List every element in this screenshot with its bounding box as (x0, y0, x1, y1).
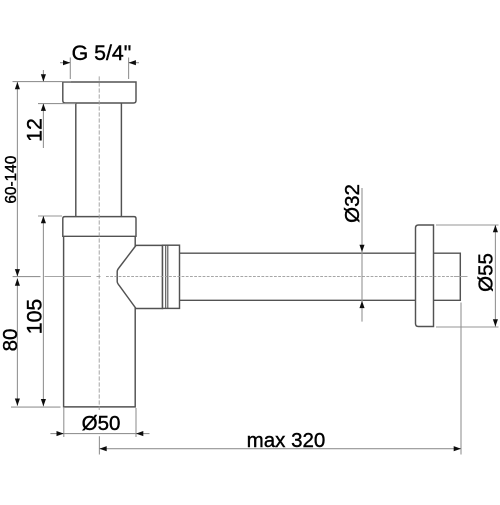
top flange (inlet nut) (63, 82, 136, 103)
extension line body bottom (11, 406, 61, 408)
svg-text:G 5/4": G 5/4" (72, 41, 132, 65)
arrow 80 top (15, 278, 20, 285)
dim 80 line (16, 278, 18, 405)
arrow 12 top (41, 74, 46, 81)
arrow max320 left (99, 446, 106, 451)
vertical centerline (98, 76, 100, 410)
arrow G5/4 left (63, 60, 70, 65)
arrow 60-140 top (15, 82, 20, 89)
dim diam32 line (361, 188, 363, 322)
horizontal centerline (106, 276, 454, 278)
dim diam50 extension lines (64, 408, 136, 437)
extension line flange bottom (38, 103, 76, 105)
dim diam55 line (494, 225, 496, 327)
trap body cup (64, 236, 136, 407)
dim max320 line (99, 448, 461, 450)
svg-text:105: 105 (23, 299, 47, 335)
svg-text:Ø55: Ø55 (475, 253, 498, 292)
dim G5/4 line (60, 62, 139, 64)
arrow diam55 top (493, 225, 498, 232)
dim max320 extension lines (99, 303, 461, 455)
outlet nut inner lines (166, 245, 168, 308)
arrow 105 top (41, 216, 46, 223)
svg-text:Ø50: Ø50 (82, 412, 121, 435)
dim 12 line (42, 70, 44, 148)
svg-text:80: 80 (0, 329, 22, 352)
arrow diam50 right (136, 431, 143, 436)
dim diam55 extension lines (436, 225, 499, 327)
dim diam50 line (50, 433, 149, 435)
extension line nut top (38, 215, 62, 217)
svg-text:60-140: 60-140 (3, 156, 20, 204)
arrow diam55 bottom (493, 319, 498, 326)
arrow diam32 top (359, 245, 364, 252)
horizontal outlet pipe (180, 253, 461, 300)
arrow diam50 left (57, 431, 64, 436)
arrow 105 bottom (41, 399, 46, 406)
wall flange (416, 225, 434, 327)
arrow G5/4 right (129, 60, 136, 65)
horizontal centerline solid lead (45, 276, 468, 278)
arrow 60-140 bottom (15, 269, 20, 276)
arrow diam32 bottom (359, 301, 364, 308)
svg-text:12: 12 (23, 118, 47, 142)
dim 105 line (42, 216, 44, 406)
svg-text:Ø32: Ø32 (341, 184, 364, 223)
extension line flange top (13, 81, 72, 83)
elbow bell cover (117, 245, 162, 308)
extension line pipe axis left (13, 276, 41, 278)
dim G5/4 extension lines (70, 58, 128, 80)
svg-text:max 320: max 320 (247, 429, 326, 452)
arrow 80 bottom (15, 399, 20, 406)
outlet nut (163, 245, 180, 308)
dim 60-140 line (16, 82, 18, 276)
arrow max320 right (454, 446, 461, 451)
body top nut (63, 217, 136, 237)
inlet telescopic pipe (76, 103, 122, 217)
arrow 12 bottom (41, 104, 46, 111)
